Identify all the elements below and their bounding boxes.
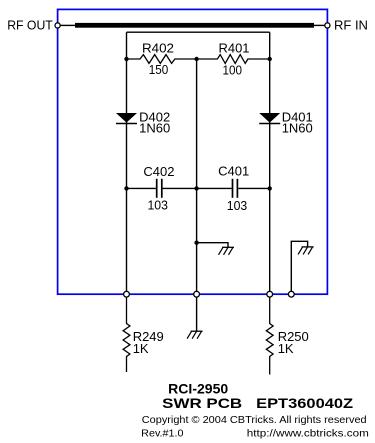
wire middle ground branch: [197, 243, 228, 248]
svg-text:103: 103: [147, 198, 168, 213]
ground (right branch): [298, 247, 314, 255]
terminal bottom left (to R249): [124, 291, 130, 297]
terminal RF IN: [325, 18, 368, 33]
svg-text:EPT360040Z: EPT360040Z: [256, 395, 354, 411]
junction dot node middle ground branch: [194, 241, 198, 245]
terminal bottom far right (to ground): [288, 291, 294, 297]
resistor R250: [266, 294, 308, 374]
resistor R249: [123, 294, 164, 372]
svg-text:http://www.cbtricks.com: http://www.cbtricks.com: [247, 428, 369, 439]
svg-text:Copyright © 2004 CBTricks. All: Copyright © 2004 CBTricks. All rights re…: [142, 415, 367, 426]
junction dot node cap row middle: [194, 186, 198, 190]
svg-text:R402: R402: [142, 40, 174, 55]
wire middle column: [196, 59, 198, 294]
junction dot node resistor row middle: [194, 57, 198, 61]
svg-text:103: 103: [227, 198, 248, 213]
svg-text:SWR PCB: SWR PCB: [162, 395, 242, 411]
svg-text:1K: 1K: [133, 341, 149, 356]
svg-text:RF IN: RF IN: [334, 18, 368, 33]
svg-text:1K: 1K: [278, 341, 294, 356]
svg-text:RF OUT: RF OUT: [7, 18, 53, 33]
svg-text:100: 100: [223, 62, 243, 77]
wire strip line to RF IN terminal: [314, 24, 325, 26]
junction dot node cap row right: [268, 186, 272, 190]
wire right ground branch: [291, 241, 307, 294]
svg-text:R401: R401: [219, 40, 250, 55]
PCB border (blue): [58, 9, 328, 294]
wire RF OUT terminal to strip line: [60, 24, 76, 26]
resistor R401: [197, 40, 270, 77]
svg-text:C402: C402: [143, 164, 174, 179]
svg-text:1N60: 1N60: [139, 121, 170, 136]
ground (middle branch): [219, 247, 235, 255]
ground (bottom middle): [187, 331, 203, 339]
diode D401: [259, 109, 313, 135]
svg-text:RCI-2950: RCI-2950: [168, 380, 228, 396]
svg-text:1N60: 1N60: [282, 120, 313, 135]
diode D402: [116, 110, 170, 136]
wire right column: [269, 32, 271, 294]
wire pickup line: [127, 31, 270, 33]
terminal RF OUT: [7, 18, 60, 33]
strip line (thick RF bar): [75, 23, 314, 28]
svg-text:Rev.#1.0: Rev.#1.0: [141, 428, 184, 439]
capacitor C402: [127, 164, 197, 212]
terminal bottom middle (to ground): [194, 291, 200, 297]
svg-text:C401: C401: [218, 164, 249, 179]
junction dot node cap row left: [124, 186, 128, 190]
wire left column: [126, 32, 128, 294]
resistor R402: [127, 40, 197, 77]
wire middle column below border: [196, 294, 198, 331]
junction dot node resistor row left: [124, 57, 128, 61]
capacitor C401: [197, 164, 270, 214]
terminal bottom right (to R250): [267, 291, 273, 297]
junction dot node resistor row right: [268, 57, 272, 61]
svg-text:150: 150: [149, 62, 169, 77]
